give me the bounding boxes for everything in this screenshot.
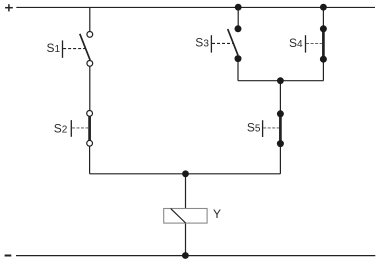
svg-text:Y: Y	[213, 207, 221, 221]
svg-text:S3: S3	[195, 36, 209, 50]
svg-text:S2: S2	[54, 122, 68, 136]
svg-text:S5: S5	[247, 120, 261, 134]
svg-text:S4: S4	[289, 36, 303, 50]
svg-text:S1: S1	[47, 41, 61, 55]
